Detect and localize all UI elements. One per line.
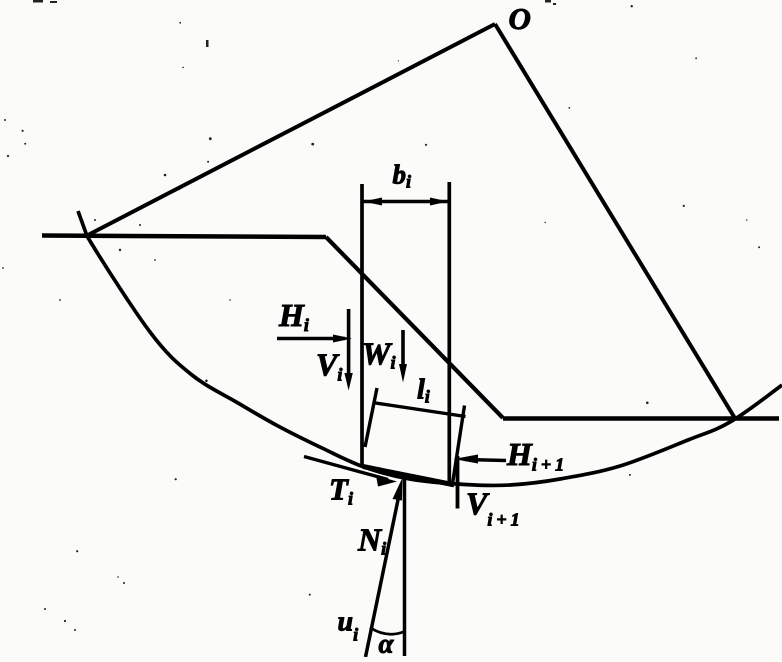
b_i right arrowhead <box>430 198 448 206</box>
l_i dimension line <box>376 403 466 417</box>
ground surface upper line <box>42 236 326 238</box>
slope face line <box>326 237 503 418</box>
radius line left (O to left crest) <box>87 24 495 236</box>
radius line right (O to toe crossing) <box>495 24 736 420</box>
H_i+1 arrow line <box>465 460 506 461</box>
svg-text:α: α <box>379 629 395 658</box>
b_i left arrowhead <box>364 198 383 206</box>
slice left vertical <box>360 184 364 467</box>
svg-text:O: O <box>509 1 531 36</box>
svg-text:Wi: Wi <box>362 336 395 373</box>
vertical reference line at base <box>403 479 407 657</box>
l_i right tick <box>452 406 465 488</box>
V_i arrowhead <box>344 373 352 391</box>
H_i arrowhead <box>333 335 352 343</box>
T_i arrow line <box>304 457 388 480</box>
ground surface lower line <box>503 416 779 421</box>
V_i arrow line <box>347 309 351 382</box>
H_i+1 arrowhead <box>454 455 479 464</box>
N_i arrow line <box>366 495 400 657</box>
H_i arrow line <box>277 337 345 341</box>
N_i arrowhead <box>393 478 403 501</box>
V_i+1 arrow line <box>456 456 460 509</box>
W_i arrow line <box>401 330 405 374</box>
l_i left tick <box>365 388 377 447</box>
slice base chord <box>363 467 453 485</box>
W_i arrowhead <box>399 364 407 383</box>
slice right vertical <box>447 182 451 485</box>
slip circle arc <box>78 211 782 486</box>
alpha angle arc <box>370 628 405 635</box>
b_i dimension line <box>363 200 449 204</box>
T_i arrowhead <box>376 476 397 487</box>
